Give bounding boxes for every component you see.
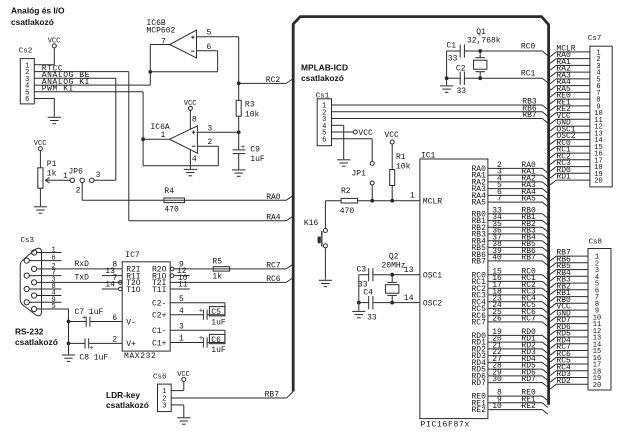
svg-text:RA4: RA4 <box>266 213 281 222</box>
svg-text:RB7: RB7 <box>522 111 537 120</box>
svg-text:RD2: RD2 <box>556 377 571 386</box>
svg-text:C1-: C1- <box>152 327 166 336</box>
svg-text:K16: K16 <box>304 219 319 228</box>
svg-text:RD7: RD7 <box>521 375 536 384</box>
svg-text:csatlakozó: csatlakozó <box>15 337 58 347</box>
svg-text:IC7: IC7 <box>125 251 140 260</box>
svg-text:RA5: RA5 <box>471 199 486 208</box>
svg-text:RA0: RA0 <box>266 193 281 202</box>
svg-text:MPLAB-ICD: MPLAB-ICD <box>301 63 348 73</box>
svg-text:C7 1uF: C7 1uF <box>75 308 104 317</box>
svg-text:3: 3 <box>179 322 184 331</box>
svg-text:R1: R1 <box>396 153 406 162</box>
svg-text:Cs2: Cs2 <box>19 48 33 56</box>
svg-text:1: 1 <box>161 131 166 140</box>
svg-text:Analóg és I/O: Analóg és I/O <box>11 6 65 16</box>
svg-text:33: 33 <box>457 87 467 96</box>
svg-text:RB7: RB7 <box>521 254 536 263</box>
svg-text:RD7: RD7 <box>471 379 486 388</box>
svg-text:R4: R4 <box>164 187 174 196</box>
svg-text:Cs6: Cs6 <box>153 374 167 382</box>
svg-text:C2+: C2+ <box>152 312 167 321</box>
svg-text:V+: V+ <box>126 340 136 349</box>
svg-text:10k: 10k <box>396 162 411 171</box>
svg-text:11: 11 <box>178 281 188 290</box>
svg-text:+: + <box>241 144 245 152</box>
svg-text:TxD: TxD <box>75 274 90 283</box>
svg-text:Cs8: Cs8 <box>589 238 603 246</box>
svg-text:RxD: RxD <box>75 260 90 269</box>
svg-text:JP1: JP1 <box>352 169 367 178</box>
svg-text:1uF: 1uF <box>211 318 226 327</box>
svg-text:V-: V- <box>126 318 136 327</box>
svg-text:4: 4 <box>179 307 184 316</box>
svg-text:6: 6 <box>207 43 212 52</box>
svg-text:R5: R5 <box>212 257 222 266</box>
svg-text:PWM KI: PWM KI <box>42 85 74 94</box>
svg-text:C4: C4 <box>363 288 373 297</box>
svg-text:RE2: RE2 <box>521 402 536 411</box>
svg-text:7: 7 <box>497 195 502 204</box>
svg-text:VCC: VCC <box>48 38 61 46</box>
svg-text:C2: C2 <box>456 65 466 74</box>
svg-text:VCC: VCC <box>184 100 197 108</box>
svg-text:RC2: RC2 <box>266 76 281 85</box>
svg-text:10: 10 <box>492 402 502 411</box>
svg-text:6: 6 <box>322 136 326 144</box>
svg-text:14: 14 <box>404 294 414 303</box>
svg-text:R2: R2 <box>341 187 351 196</box>
svg-text:RB7: RB7 <box>265 391 280 400</box>
svg-text:5: 5 <box>52 303 56 311</box>
svg-text:R3: R3 <box>245 101 255 110</box>
svg-text:MCP602: MCP602 <box>147 27 176 36</box>
svg-text:Cs7: Cs7 <box>588 35 602 43</box>
svg-text:1k: 1k <box>47 169 57 178</box>
svg-text:6: 6 <box>52 255 56 263</box>
svg-text:JP6: JP6 <box>69 168 84 177</box>
svg-text:+: + <box>199 307 203 315</box>
svg-text:MCLR: MCLR <box>423 198 442 207</box>
svg-text:C6: C6 <box>211 336 221 345</box>
svg-text:6: 6 <box>25 96 29 104</box>
svg-text:26: 26 <box>492 315 502 324</box>
svg-text:20: 20 <box>593 382 601 390</box>
svg-text:470: 470 <box>164 206 179 215</box>
svg-text:RC7: RC7 <box>266 262 281 271</box>
svg-text:10k: 10k <box>245 111 260 120</box>
svg-text:RA5: RA5 <box>521 195 536 204</box>
svg-text:1: 1 <box>179 335 184 344</box>
svg-text:RC6: RC6 <box>266 275 281 284</box>
svg-text:6: 6 <box>112 314 117 323</box>
svg-text:PIC16F87x: PIC16F87x <box>421 420 471 429</box>
svg-text:RB7: RB7 <box>471 258 486 267</box>
svg-text:+: + <box>199 335 203 343</box>
svg-text:14: 14 <box>105 281 115 290</box>
svg-text:VCC: VCC <box>358 129 373 138</box>
svg-text:3: 3 <box>96 171 101 180</box>
svg-text:csatlakozó: csatlakozó <box>11 17 54 27</box>
svg-text:csatlakozó: csatlakozó <box>301 73 344 83</box>
svg-text:csatlakozó: csatlakozó <box>106 400 149 410</box>
svg-text:RC7: RC7 <box>521 315 536 324</box>
svg-text:32,768k: 32,768k <box>467 37 501 46</box>
svg-text:13: 13 <box>404 266 414 275</box>
svg-text:C2-: C2- <box>152 300 166 309</box>
svg-text:3: 3 <box>207 124 212 133</box>
svg-text:C1: C1 <box>446 42 456 51</box>
svg-text:C9: C9 <box>250 145 260 154</box>
svg-text:+: + <box>90 345 94 353</box>
svg-text:470: 470 <box>340 207 355 216</box>
svg-text:7: 7 <box>161 37 166 46</box>
svg-text:1uF: 1uF <box>250 155 265 164</box>
svg-text:33: 33 <box>367 314 377 323</box>
svg-text:T1O: T1O <box>126 286 141 295</box>
svg-text:2: 2 <box>112 336 117 345</box>
svg-text:20MHz: 20MHz <box>382 262 406 271</box>
svg-text:1: 1 <box>52 247 56 255</box>
svg-text:5: 5 <box>207 29 212 38</box>
svg-text:33: 33 <box>448 54 458 63</box>
svg-text:VCC: VCC <box>34 140 47 148</box>
svg-text:OSC1: OSC1 <box>423 272 442 281</box>
svg-text:P1: P1 <box>47 160 57 169</box>
svg-text:Q2: Q2 <box>389 252 399 261</box>
svg-text:5: 5 <box>179 295 184 304</box>
svg-text:T1I: T1I <box>152 286 166 295</box>
svg-text:VCC: VCC <box>177 371 190 379</box>
svg-text:RC1: RC1 <box>521 70 536 79</box>
svg-text:1: 1 <box>410 192 415 201</box>
svg-text:Cs3: Cs3 <box>21 237 35 245</box>
svg-text:MAX232: MAX232 <box>124 352 156 361</box>
svg-text:RC0: RC0 <box>521 42 536 51</box>
svg-text:C1+: C1+ <box>152 339 167 348</box>
svg-text:1k: 1k <box>212 273 222 282</box>
svg-text:4: 4 <box>192 155 197 164</box>
svg-text:RD1: RD1 <box>556 173 571 182</box>
svg-text:8: 8 <box>192 115 197 124</box>
svg-text:VCC: VCC <box>384 131 399 140</box>
svg-text:30: 30 <box>492 375 502 384</box>
svg-text:OSC2: OSC2 <box>423 299 442 308</box>
svg-text:RS-232: RS-232 <box>15 327 44 337</box>
svg-text:C5: C5 <box>211 308 221 317</box>
svg-text:C3: C3 <box>357 265 367 274</box>
svg-text:RC7: RC7 <box>471 319 486 328</box>
svg-text:40: 40 <box>492 254 502 263</box>
svg-text:3: 3 <box>162 403 166 411</box>
svg-text:1: 1 <box>63 172 68 181</box>
svg-text:1uF: 1uF <box>211 346 226 355</box>
svg-text:2: 2 <box>207 138 212 147</box>
svg-text:2: 2 <box>76 187 81 196</box>
svg-text:C8 1uF: C8 1uF <box>79 354 108 363</box>
svg-text:20: 20 <box>594 178 602 186</box>
svg-text:LDR-key: LDR-key <box>106 390 140 400</box>
svg-text:RE2: RE2 <box>471 406 486 415</box>
